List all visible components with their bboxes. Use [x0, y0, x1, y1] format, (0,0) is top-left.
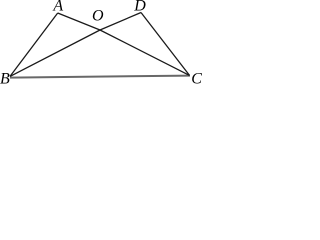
segment DC: [141, 13, 190, 76]
segment AO: [58, 13, 100, 30]
segment BA: [10, 13, 58, 76]
svg-text:D: D: [133, 0, 146, 15]
svg-text:B: B: [0, 70, 10, 84]
segment BO: [10, 30, 100, 76]
segment OC: [100, 30, 190, 75]
segment OD: [100, 13, 141, 31]
geometry diagram: segments AC and BD crossing at O above base BC: [0, 0, 202, 84]
segment BC (base, gray): [10, 76, 190, 78]
svg-text:C: C: [191, 70, 202, 84]
svg-text:O: O: [92, 8, 104, 25]
svg-text:A: A: [52, 0, 63, 15]
